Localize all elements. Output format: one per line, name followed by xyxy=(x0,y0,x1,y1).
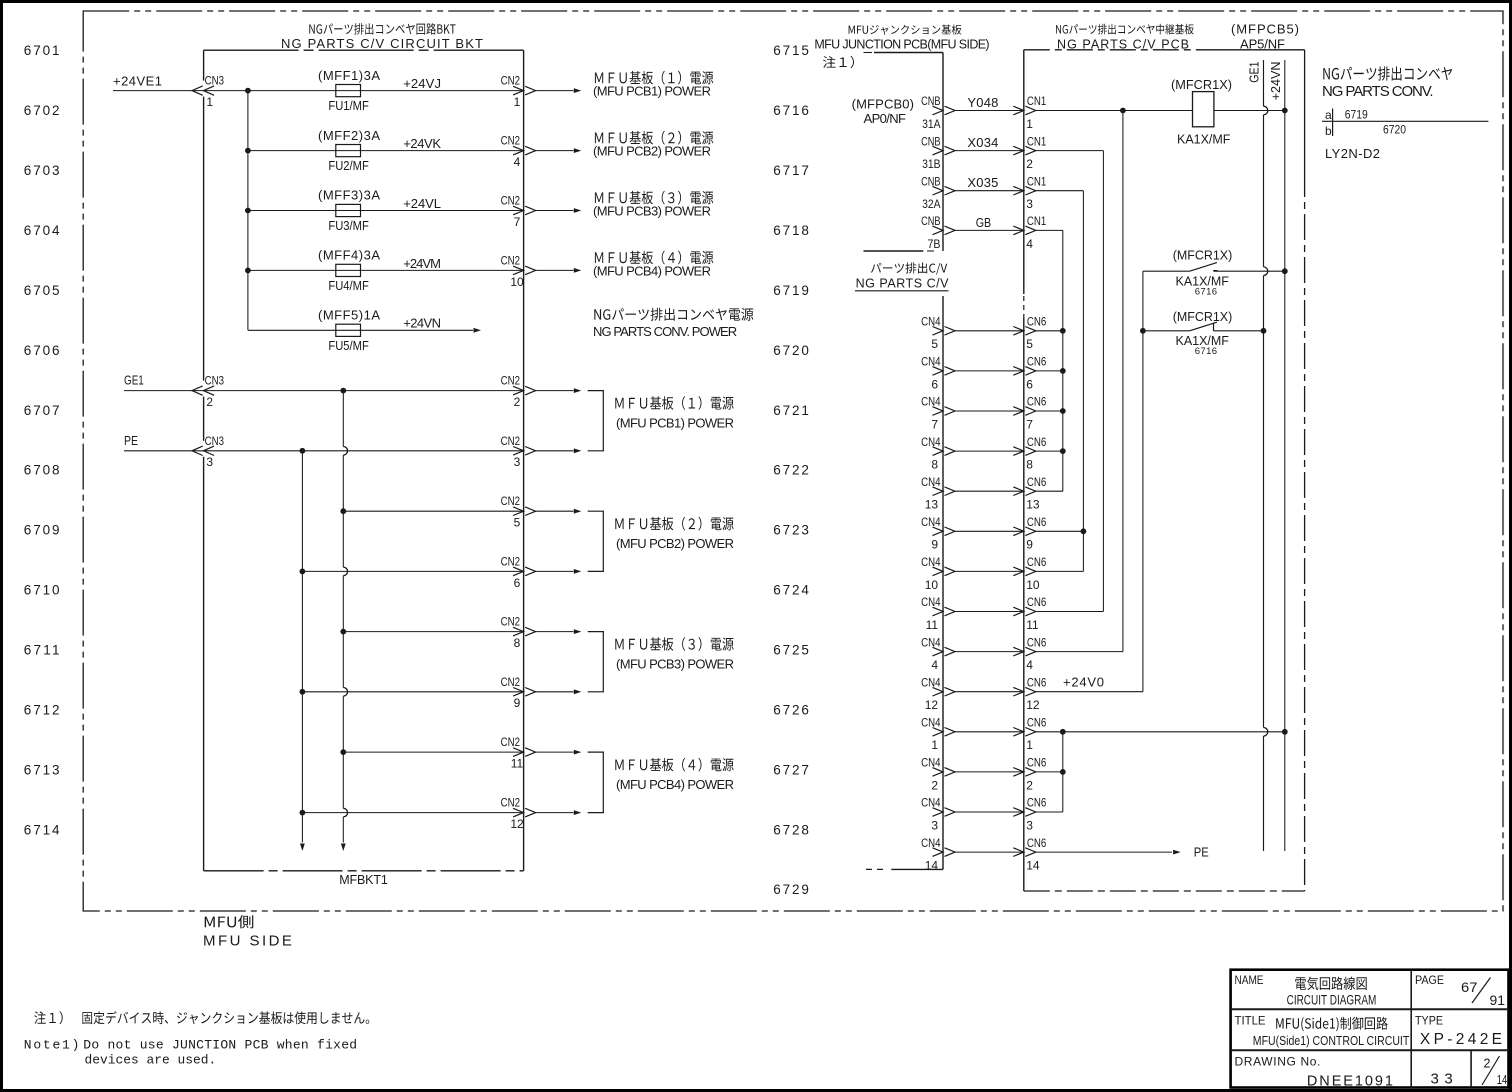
svg-text:CN4: CN4 xyxy=(921,756,941,770)
row scale labels 6715-6729 xyxy=(773,43,809,897)
connector CN3 pin 3 xyxy=(192,434,224,469)
svg-text:(MFU PCB3) POWER: (MFU PCB3) POWER xyxy=(593,203,711,218)
svg-text:2: 2 xyxy=(1484,1057,1491,1071)
connector CN1 pin 1 xyxy=(1013,94,1046,131)
svg-text:CN4: CN4 xyxy=(921,716,941,730)
connector CN2 pin 1 xyxy=(501,74,536,109)
label MFU SIDE xyxy=(203,915,292,949)
svg-text:14: 14 xyxy=(1497,1073,1508,1087)
svg-text:+24VL: +24VL xyxy=(403,196,441,211)
wire CN6-3 tie xyxy=(1036,811,1063,813)
svg-text:3: 3 xyxy=(206,455,213,469)
svg-text:6729: 6729 xyxy=(773,882,809,897)
svg-text:NG PARTS C/V PCB: NG PARTS C/V PCB xyxy=(1057,38,1189,52)
wire X035 to CN6 pins 9-10 xyxy=(1036,191,1084,572)
svg-text:5: 5 xyxy=(1026,337,1033,351)
wire signal Y048 xyxy=(955,110,1024,112)
svg-text:6715: 6715 xyxy=(773,43,809,58)
wire CN6-4 tie xyxy=(1036,651,1123,653)
junction tie xyxy=(1060,448,1066,454)
svg-text:6704: 6704 xyxy=(24,223,60,238)
svg-text:31B: 31B xyxy=(922,157,940,171)
wire CN2 output xyxy=(536,388,582,393)
wire CN6-2 tie xyxy=(1036,771,1063,773)
svg-text:12: 12 xyxy=(1026,698,1040,712)
label NG PARTS C/V (parts eject conveyor) xyxy=(855,262,949,290)
wire CN4-9 to CN6-9 xyxy=(955,530,1024,532)
svg-text:6727: 6727 xyxy=(773,762,809,777)
svg-text:10: 10 xyxy=(510,275,524,289)
svg-text:CN4: CN4 xyxy=(921,635,941,649)
svg-text:CIRCUIT DIAGRAM: CIRCUIT DIAGRAM xyxy=(1287,992,1377,1007)
wire bus to CN2 pin 6 xyxy=(302,570,523,572)
connector CN6 pin 6 xyxy=(1013,355,1046,392)
wire fused output +24VJ xyxy=(361,90,524,92)
svg-text:6728: 6728 xyxy=(773,822,809,837)
load label MFU PCB4 POWER xyxy=(615,758,734,792)
svg-text:+24VJ: +24VJ xyxy=(403,76,441,91)
junction fuse feed xyxy=(245,208,251,214)
wire GE1 input xyxy=(124,390,343,392)
svg-text:5: 5 xyxy=(931,337,938,351)
junction tie xyxy=(1081,528,1087,534)
junction bus tap pin 6 xyxy=(300,569,306,575)
connector CN2 pin 11 xyxy=(501,735,536,770)
connector CN6 pin 13 xyxy=(1013,475,1046,512)
wire bus to CN2 pin 8 xyxy=(343,631,523,633)
svg-text:1: 1 xyxy=(514,95,521,109)
enclosure MFU SIDE (dash-dot boundary) xyxy=(83,11,1503,911)
svg-text:9: 9 xyxy=(931,538,938,552)
svg-text:2: 2 xyxy=(1026,778,1033,792)
rail +24VN (vertical) xyxy=(1284,60,1286,851)
connector CN2 pin 4 xyxy=(501,134,536,169)
svg-text:PAGE: PAGE xyxy=(1415,973,1444,987)
wire CN6-7 tie xyxy=(1036,410,1063,412)
junction fuse feed xyxy=(245,268,251,274)
svg-text:6726: 6726 xyxy=(773,702,809,717)
svg-text:AP0/NF: AP0/NF xyxy=(864,111,907,126)
wire CN6-11 tie xyxy=(1036,611,1104,613)
fuse FU3/MF (MFF3) 3A xyxy=(318,188,380,233)
svg-text:9: 9 xyxy=(1026,538,1033,552)
svg-text:CN2: CN2 xyxy=(501,374,521,388)
svg-text:FU4/MF: FU4/MF xyxy=(328,279,369,293)
svg-text:6717: 6717 xyxy=(773,163,809,178)
wire CN2 pin 9 output xyxy=(536,689,582,694)
svg-text:6701: 6701 xyxy=(24,43,60,58)
svg-text:31A: 31A xyxy=(922,117,940,131)
arrow PE bus continues down xyxy=(300,844,305,852)
connector CN6 pin 1 xyxy=(1013,716,1046,753)
svg-text:+24VM: +24VM xyxy=(403,256,441,271)
svg-text:2: 2 xyxy=(514,395,521,409)
svg-text:7B: 7B xyxy=(928,237,941,251)
svg-text:CN3: CN3 xyxy=(205,74,225,88)
svg-text:6720: 6720 xyxy=(773,343,809,358)
connector CN6 pin 12 xyxy=(1013,675,1046,712)
svg-text:6719: 6719 xyxy=(773,283,809,298)
wire CN4-8 to CN6-8 xyxy=(955,450,1024,452)
junction bus tap pin 12 xyxy=(300,810,306,816)
svg-text:(MFU PCB4) POWER: (MFU PCB4) POWER xyxy=(593,263,711,278)
svg-text:(MFPCB5): (MFPCB5) xyxy=(1231,22,1299,37)
wire bus to CN2 pin 5 xyxy=(343,510,523,512)
connector CN6 pin 5 xyxy=(1013,315,1046,352)
svg-text:CN4: CN4 xyxy=(921,796,941,810)
connector CN4 pin 12 xyxy=(921,675,955,712)
wire +24VE1 input xyxy=(113,90,248,92)
connector CN4 pin 14 xyxy=(921,836,955,873)
junction Y048 branch xyxy=(1120,108,1126,114)
svg-text:(MFU PCB2) POWER: (MFU PCB2) POWER xyxy=(616,536,734,551)
wire bus to CN2 pin 11 xyxy=(343,751,523,753)
svg-text:(MFU PCB3) POWER: (MFU PCB3) POWER xyxy=(616,657,734,672)
svg-text:GB: GB xyxy=(976,215,992,230)
svg-text:CN2: CN2 xyxy=(501,554,521,568)
svg-text:6705: 6705 xyxy=(24,283,60,298)
connector CN2 pin 6 xyxy=(501,554,536,589)
wire CN2 output xyxy=(536,448,582,453)
connector CNB pin 31B xyxy=(921,134,955,171)
wire GE1 to CN2 pin 2 xyxy=(343,390,523,392)
svg-text:11: 11 xyxy=(926,618,939,632)
svg-text:CN6: CN6 xyxy=(1027,315,1047,329)
svg-text:NAME: NAME xyxy=(1235,973,1264,987)
svg-text:8: 8 xyxy=(514,636,521,650)
wire CN6-12 tie xyxy=(1036,691,1143,693)
wire +24VK to MFU PCB2 xyxy=(536,148,582,153)
junction GE1 bus xyxy=(340,388,346,394)
svg-text:6718: 6718 xyxy=(773,223,809,238)
connector CN6 pin 8 xyxy=(1013,435,1046,472)
svg-text:CN4: CN4 xyxy=(921,355,941,369)
svg-text:+24VK: +24VK xyxy=(403,136,441,151)
fuse FU5/MF (MFF5) 1A xyxy=(318,308,380,353)
svg-text:CN6: CN6 xyxy=(1027,716,1047,730)
connector CN1 pin 3 xyxy=(1013,174,1046,211)
wire fuse feed row MFF4 xyxy=(248,269,336,271)
svg-text:NG PARTS CONV.: NG PARTS CONV. xyxy=(1322,83,1434,100)
connector CN6 pin 4 xyxy=(1013,635,1046,672)
connector CN2 pin 3 xyxy=(501,434,536,469)
load label MFU PCB1 POWER xyxy=(593,71,713,99)
svg-text:CN6: CN6 xyxy=(1027,635,1047,649)
svg-text:9: 9 xyxy=(514,696,521,710)
svg-text:TITLE: TITLE xyxy=(1235,1014,1266,1028)
svg-text:7: 7 xyxy=(931,417,938,431)
junction tie xyxy=(1060,769,1066,775)
svg-text:CN4: CN4 xyxy=(921,675,941,689)
wire Y048 to relay coil xyxy=(1036,110,1193,112)
circuit bracket box MFBKT1 (NG PARTS C/V CIRCUIT BKT) xyxy=(204,50,524,871)
relay contact KA1X/MF NO (MFCR1X) row 6719 xyxy=(1143,248,1285,298)
load label MFU PCB3 POWER xyxy=(615,637,734,671)
relay coil KA1X/MF (MFCR1X) xyxy=(1171,77,1232,147)
connector CN6 pin 10 xyxy=(1013,555,1046,592)
svg-text:+24V0: +24V0 xyxy=(1063,675,1104,690)
svg-text:CN6: CN6 xyxy=(1027,475,1047,489)
wire CN2 pin 8 output xyxy=(536,629,582,634)
svg-text:PE: PE xyxy=(124,433,138,448)
svg-text:12: 12 xyxy=(510,817,524,831)
svg-text:6702: 6702 xyxy=(24,103,60,118)
wire bus to CN2 pin 12 xyxy=(302,812,523,814)
svg-text:CN6: CN6 xyxy=(1027,756,1047,770)
svg-text:MFU JUNCTION PCB(MFU SIDE): MFU JUNCTION PCB(MFU SIDE) xyxy=(814,38,989,52)
svg-text:FU1/MF: FU1/MF xyxy=(328,99,369,113)
junction tie xyxy=(1060,408,1066,414)
svg-text:CN2: CN2 xyxy=(501,74,521,88)
load label MFU PCB3 POWER xyxy=(593,191,713,219)
wire GE1 distribution bus (vertical) xyxy=(343,391,347,843)
connector CN4 pin 9 xyxy=(921,515,955,552)
wire CN2 pin 6 output xyxy=(536,569,582,574)
svg-text:CN2: CN2 xyxy=(501,796,521,810)
wire CN4-12 to CN6-12 xyxy=(955,691,1024,693)
connector CN4 pin 3 xyxy=(921,796,955,833)
svg-text:6706: 6706 xyxy=(24,343,60,358)
wire signal X035 xyxy=(955,190,1024,192)
connector CN2 pin 9 xyxy=(501,675,536,710)
pcb NG PARTS C/V PCB (MFPCB5 AP5/NF) boundary xyxy=(1024,50,1305,891)
svg-text:(MFCR1X): (MFCR1X) xyxy=(1173,309,1233,324)
wire CN2 pin 12 output xyxy=(536,810,582,815)
svg-text:X035: X035 xyxy=(967,175,998,190)
wire +24VE1 vertical feed bus xyxy=(247,91,249,331)
svg-text:6703: 6703 xyxy=(24,163,60,178)
wire CN6-10 tie xyxy=(1036,570,1084,572)
svg-text:FU5/MF: FU5/MF xyxy=(328,339,369,353)
svg-text:6712: 6712 xyxy=(24,702,60,717)
svg-text:6713: 6713 xyxy=(24,762,60,777)
svg-text:CN4: CN4 xyxy=(921,836,941,850)
svg-text:CN1: CN1 xyxy=(1027,134,1047,148)
svg-text:1: 1 xyxy=(206,95,213,109)
svg-text:12: 12 xyxy=(925,698,939,712)
svg-text:6725: 6725 xyxy=(773,643,809,658)
svg-text:67: 67 xyxy=(1461,980,1477,995)
svg-text:CN3: CN3 xyxy=(205,434,225,448)
junction contact left xyxy=(1140,328,1146,334)
svg-text:14: 14 xyxy=(925,859,939,873)
wire CN6-6 tie xyxy=(1036,370,1063,372)
connector CN6 pin 3 xyxy=(1013,796,1046,833)
svg-text:CN6: CN6 xyxy=(1027,675,1047,689)
connector CN4 pin 11 xyxy=(921,595,955,632)
fuse FU4/MF (MFF4) 3A xyxy=(318,248,380,293)
svg-text:Y048: Y048 xyxy=(967,95,998,110)
connector CN4 pin 7 xyxy=(921,395,955,432)
title block xyxy=(1231,970,1509,1090)
svg-text:CN4: CN4 xyxy=(921,475,941,489)
svg-text:3: 3 xyxy=(1026,818,1033,832)
svg-text:3: 3 xyxy=(931,818,938,832)
wire fused output +24VK xyxy=(361,150,524,152)
load label MFU PCB4 POWER xyxy=(593,251,713,279)
svg-text:(MFF5)1A: (MFF5)1A xyxy=(318,308,380,323)
svg-text:FU2/MF: FU2/MF xyxy=(328,159,369,173)
connector CN3 pin 2 xyxy=(192,374,224,409)
svg-text:2: 2 xyxy=(1026,157,1033,171)
svg-text:(MFF1)3A: (MFF1)3A xyxy=(318,68,380,83)
svg-text:4: 4 xyxy=(1026,237,1033,251)
svg-text:CNB: CNB xyxy=(921,214,940,228)
junction bus tap pin 8 xyxy=(340,629,346,635)
junction +24VE1 bus xyxy=(245,88,251,94)
wire GB to CN6 pins 5-8,13 xyxy=(1036,230,1063,491)
svg-text:NG PARTS C/V CIRCUIT BKT: NG PARTS C/V CIRCUIT BKT xyxy=(281,36,483,51)
svg-text:2: 2 xyxy=(931,778,938,792)
svg-text:CN2: CN2 xyxy=(501,675,521,689)
svg-text:CN2: CN2 xyxy=(501,615,521,629)
fuse FU2/MF (MFF2) 3A xyxy=(318,128,380,173)
junction tie xyxy=(1060,368,1066,374)
connector CN4 pin 4 xyxy=(921,635,955,672)
svg-text:1: 1 xyxy=(931,738,938,752)
svg-text:(MFU PCB2) POWER: (MFU PCB2) POWER xyxy=(593,144,711,159)
svg-text:X034: X034 xyxy=(967,135,998,150)
svg-text:MFBKT1: MFBKT1 xyxy=(339,873,388,887)
title block JP text xyxy=(1276,977,1388,1032)
svg-text:6722: 6722 xyxy=(773,463,809,478)
svg-text:b: b xyxy=(1325,124,1332,138)
connector CN2 pin 2 xyxy=(501,374,536,409)
wire bus to CN2 pin 9 xyxy=(302,691,523,693)
wire CN4-2 to CN6-2 xyxy=(955,771,1024,773)
wire CN2 pin 5 output xyxy=(536,509,582,514)
svg-text:6: 6 xyxy=(931,377,938,391)
svg-text:6724: 6724 xyxy=(773,583,809,598)
svg-text:(MFPCB0): (MFPCB0) xyxy=(852,97,914,112)
svg-text:(MFCR1X): (MFCR1X) xyxy=(1171,77,1232,92)
svg-text:NG PARTS CONV. POWER: NG PARTS CONV. POWER xyxy=(593,324,737,339)
svg-text:10: 10 xyxy=(1026,578,1040,592)
wire CN2 pin 11 output xyxy=(536,750,582,755)
svg-text:6716: 6716 xyxy=(773,103,809,118)
svg-text:CN4: CN4 xyxy=(921,595,941,609)
svg-text:6714: 6714 xyxy=(24,822,60,837)
wire CN4-3 to CN6-3 xyxy=(955,811,1024,813)
load label MFU PCB2 POWER xyxy=(615,517,734,551)
wire CN6-13 tie xyxy=(1036,490,1063,492)
connector CN4 pin 6 xyxy=(921,355,955,392)
svg-text:14: 14 xyxy=(1026,859,1040,873)
svg-text:11: 11 xyxy=(1026,618,1039,632)
svg-text:CN4: CN4 xyxy=(921,395,941,409)
svg-text:GE1: GE1 xyxy=(1248,62,1262,83)
svg-text:a: a xyxy=(1325,108,1332,122)
svg-text:6719: 6719 xyxy=(1345,108,1368,122)
svg-text:+24VN: +24VN xyxy=(1269,62,1283,101)
wire CN4-11 to CN6-11 xyxy=(955,611,1024,613)
wire CN4-5 to CN6-5 xyxy=(955,330,1024,332)
rail GE1 (vertical) xyxy=(1264,60,1268,851)
svg-text:CN1: CN1 xyxy=(1027,94,1047,108)
wire CN6-5 tie xyxy=(1036,330,1063,332)
wire fuse feed row MFF2 xyxy=(248,150,336,152)
svg-text:CN6: CN6 xyxy=(1027,555,1047,569)
connector CNB pin 31A xyxy=(921,94,955,131)
svg-text:CN6: CN6 xyxy=(1027,515,1047,529)
svg-text:CNB: CNB xyxy=(921,134,940,148)
svg-text:32A: 32A xyxy=(922,197,940,211)
wire CN6-14 to PE xyxy=(1036,850,1181,855)
svg-text:3: 3 xyxy=(1026,197,1033,211)
connector CN2 pin 7 xyxy=(501,194,536,229)
svg-text:(MFU PCB1) POWER: (MFU PCB1) POWER xyxy=(616,416,734,431)
svg-text:+24VE1: +24VE1 xyxy=(113,74,162,89)
svg-text:4: 4 xyxy=(1026,658,1033,672)
svg-text:CN2: CN2 xyxy=(501,434,521,448)
svg-text:(MFF2)3A: (MFF2)3A xyxy=(318,128,380,143)
arrow GE1 bus continues down xyxy=(341,844,346,852)
svg-text:(MFCR1X): (MFCR1X) xyxy=(1173,248,1233,263)
svg-text:CN4: CN4 xyxy=(921,435,941,449)
connector CN4 pin 1 xyxy=(921,716,955,753)
svg-text:(MFU PCB4) POWER: (MFU PCB4) POWER xyxy=(616,777,734,792)
connector CN4 pin 10 xyxy=(921,555,955,592)
wire CN4-10 to CN6-10 xyxy=(955,570,1024,572)
connector CN2 pin 12 xyxy=(501,796,536,831)
svg-text:13: 13 xyxy=(1026,498,1040,512)
svg-text:CN2: CN2 xyxy=(501,494,521,508)
svg-text:Do not use JUNCTION PCB when f: Do not use JUNCTION PCB when fixed xyxy=(83,1038,357,1053)
wire CN4-14 to CN6-14 xyxy=(955,851,1024,853)
svg-text:devices are used.: devices are used. xyxy=(85,1053,217,1068)
wire CN4-1 to CN6-1 xyxy=(955,731,1024,733)
wire CN6-9 tie xyxy=(1036,530,1084,532)
svg-text:TYPE: TYPE xyxy=(1415,1014,1443,1028)
connector CN6 pin 11 xyxy=(1013,595,1046,632)
svg-text:CNB: CNB xyxy=(921,174,940,188)
svg-text:CN4: CN4 xyxy=(921,515,941,529)
connector CN4 pin 8 xyxy=(921,435,955,472)
wire +24VN conveyor power output xyxy=(361,328,482,333)
svg-text:6708: 6708 xyxy=(24,463,60,478)
svg-text:CN4: CN4 xyxy=(921,555,941,569)
svg-text:CN1: CN1 xyxy=(1027,214,1047,228)
component label (MFPCB0) AP0/NF xyxy=(852,97,914,126)
wire +24VM to MFU PCB4 xyxy=(536,268,582,273)
connector CN6 pin 7 xyxy=(1013,395,1046,432)
svg-text:4: 4 xyxy=(514,155,521,169)
svg-text:DNEE1091: DNEE1091 xyxy=(1307,1074,1393,1090)
load label MFU PCB2 POWER xyxy=(593,131,713,159)
svg-text:7: 7 xyxy=(1026,417,1033,431)
svg-text:GE1: GE1 xyxy=(124,373,144,388)
svg-text:CN3: CN3 xyxy=(205,374,225,388)
wire signal X034 xyxy=(955,150,1024,152)
bracket MFU PCB3 power pair xyxy=(588,632,604,692)
connector CN4 pin 2 xyxy=(921,756,955,793)
connector CN2 pin 10 xyxy=(501,253,536,288)
wire PE distribution bus (vertical) xyxy=(301,451,303,843)
wire CN6-8 tie xyxy=(1036,450,1063,452)
junction contact to +24VN xyxy=(1282,268,1288,274)
wire +24VJ to MFU PCB1 xyxy=(536,88,582,93)
connector CN2 pin 8 xyxy=(501,615,536,650)
svg-text:13: 13 xyxy=(925,498,939,512)
label (MFPCB5) AP5/NF xyxy=(1231,22,1299,52)
row scale labels 6701-6714 xyxy=(24,43,60,837)
svg-text:6723: 6723 xyxy=(773,523,809,538)
wire contact branch (vertical) xyxy=(1142,271,1144,692)
svg-text:91: 91 xyxy=(1490,993,1506,1008)
svg-text:6: 6 xyxy=(1026,377,1033,391)
label NG PARTS C/V PCB title xyxy=(1056,24,1194,52)
pcb MFU JUNCTION PCB boundary xyxy=(864,53,944,252)
